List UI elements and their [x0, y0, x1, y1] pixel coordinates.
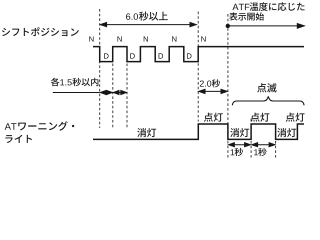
wire: AT warning light waveform	[93, 124, 304, 139]
leader line from 1.5s label	[53, 92, 100, 94]
label: 1 s #2	[254, 149, 258, 155]
node label: D position #2	[130, 53, 134, 58]
label: blinking (点滅)	[257, 83, 266, 92]
label: lamp off #3 (消灯)	[277, 128, 286, 137]
label: 1 s #1	[231, 149, 235, 155]
node label: N position #5	[201, 36, 205, 41]
measure arrow: first 1s interval	[230, 144, 250, 146]
node label: N position #1	[89, 36, 93, 41]
wire: shift position N/D waveform	[93, 47, 304, 62]
dashed guide at display-start / lamp-off point	[227, 14, 229, 158]
label: 2.0 s	[200, 80, 204, 86]
dashed guide at first N-to-D transition	[99, 9, 101, 128]
node label: N position #4	[172, 36, 176, 41]
node label: N position #2	[117, 36, 121, 41]
node dot: ATF display start point	[226, 24, 230, 28]
measure arrow: 6.0s or more	[101, 24, 195, 26]
dashed guide at second lamp-off edge	[275, 141, 277, 158]
label: lamp on #3 (点灯)	[286, 113, 295, 122]
label: each within 1.5 s	[51, 78, 60, 86]
node label: D position #3	[159, 53, 163, 58]
measure arrow: second 1.5s interval	[114, 92, 125, 94]
dashed guide at second lamp-on edge	[250, 119, 252, 124]
dashed guide at last D-to-N transition (6.0s end)	[197, 12, 199, 122]
label: display start, line 2	[229, 12, 237, 20]
label: lamp on #1 (点灯)	[204, 113, 213, 122]
node label: D position #1	[104, 53, 108, 58]
brace: blinking region	[232, 96, 304, 105]
label: lamp off #2 (消灯)	[230, 128, 239, 137]
label: lamp on #2 (点灯)	[251, 113, 260, 122]
arrow: display start (to the right)	[228, 25, 298, 27]
measure arrow: 2.0s	[200, 90, 226, 92]
label: ATF temperature dependent, line 1	[232, 4, 238, 10]
measure arrow: first 1.5s interval	[101, 92, 111, 94]
measure arrow: second 1s interval	[253, 144, 274, 146]
dashed guide at second N-to-D transition	[126, 64, 128, 129]
dashed guide at first D-to-N transition	[112, 64, 114, 129]
label: shift position (シフトポジション)	[2, 28, 10, 36]
label: lamp off #1 (消灯)	[137, 128, 146, 137]
node label: N position #3	[144, 36, 148, 41]
label: AT warning light line 1 (ATワーニング・)	[5, 123, 11, 130]
label: AT warning light line 2 (ライト)	[5, 135, 12, 143]
node label: D position #4	[187, 53, 191, 58]
label: 6.0 s or more	[126, 13, 130, 20]
